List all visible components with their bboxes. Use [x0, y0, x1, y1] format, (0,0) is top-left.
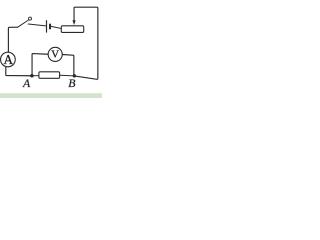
battery: long positive plate	[46, 20, 48, 32]
wire: node A up and to voltmeter left	[32, 54, 48, 76]
rheostat R body	[61, 26, 83, 33]
node B junction dot	[73, 74, 76, 77]
voltmeter V1 circle	[48, 47, 62, 61]
wire: left rail and top-left wire to switch	[8, 27, 18, 52]
rheostat wiper arrow stem and top-right wire and right rail and bottom-right wire	[74, 7, 98, 79]
svg-text:B: B	[68, 76, 75, 90]
wire: voltmeter right down to node B	[62, 55, 74, 76]
wire: node A to bottom-left corner and up to ammeter	[6, 67, 32, 76]
switch S1 contact circle	[29, 17, 32, 20]
resistor R body between A and B	[39, 72, 60, 79]
ammeter A1 circle	[1, 52, 16, 67]
wire: battery to rheostat	[51, 26, 61, 28]
wire: switch to battery	[28, 24, 46, 26]
svg-text:A: A	[22, 76, 31, 90]
rheostat wiper arrowhead	[72, 20, 75, 25]
switch S1 lever	[18, 20, 29, 27]
wire: resistor to node A	[32, 75, 39, 77]
wire: node B to resistor	[60, 74, 75, 77]
svg-text:V: V	[51, 48, 59, 60]
node A junction dot	[30, 74, 34, 78]
svg-text:A: A	[4, 52, 14, 67]
green table strip at bottom	[0, 93, 102, 98]
battery: short thick negative plate	[49, 24, 51, 30]
